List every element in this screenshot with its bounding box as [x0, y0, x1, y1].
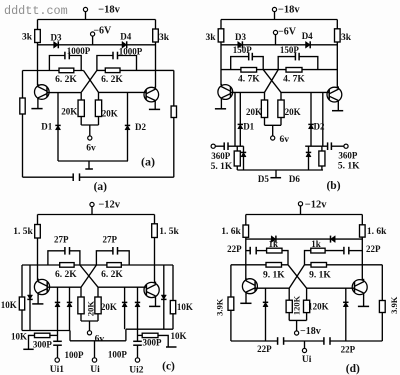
- svg-text:D6: D6: [289, 174, 300, 184]
- wire base left (c): [47, 286, 81, 288]
- wire feedback rail left (d): [231, 264, 288, 266]
- svg-text:−12v: −12v: [98, 199, 120, 210]
- wire Ui stub (d): [304, 341, 306, 348]
- resistor 4.7K right (b): [286, 68, 302, 73]
- resistor 3.9K left (d): [228, 297, 234, 310]
- capacitor 22P upper-right (d): [325, 247, 362, 255]
- wire right trunk upper (c): [154, 215, 156, 224]
- wire bottom rail left (a): [23, 176, 74, 178]
- terminal 6v (c): [87, 331, 91, 335]
- label 1.5k left (c): [13, 227, 33, 237]
- emitter Q2 (b): [332, 103, 343, 111]
- label Ui (c): [90, 365, 100, 375]
- resistor 10K horizontal left (c): [23, 333, 57, 349]
- wire bottom rail 2 (d): [284, 340, 324, 342]
- wire base right (d): [307, 287, 355, 289]
- wire collector rail (b): [221, 69, 337, 71]
- wire left trunk (b): [220, 42, 222, 85]
- transistor Q1 (b): [218, 84, 233, 100]
- svg-text:(d): (d): [346, 363, 360, 375]
- diode 4 middle (c): [135, 302, 140, 306]
- wire outer right (c): [172, 265, 174, 301]
- capacitor 150P left (b): [231, 53, 264, 70]
- label 360P right (b): [338, 151, 358, 161]
- wire outer right lower (c): [172, 314, 174, 329]
- label -18v (b): [278, 4, 300, 15]
- svg-text:100P: 100P: [65, 350, 85, 360]
- transistor Q2 (a): [144, 87, 159, 103]
- resistor 1.5k left (c): [35, 225, 41, 239]
- diode clamp left (c): [27, 295, 32, 299]
- svg-text:360P: 360P: [211, 151, 231, 161]
- label Ui (d): [302, 355, 312, 365]
- svg-text:D5: D5: [258, 174, 269, 184]
- wire collector left (a): [23, 70, 84, 72]
- wire bottom rail 3 (d): [330, 340, 382, 342]
- wire outer left (d): [230, 265, 232, 297]
- diode D2 (b): [308, 124, 313, 128]
- terminal -6V (a): [91, 32, 95, 45]
- wire base left (a): [47, 92, 81, 94]
- resistor 10K left (c): [19, 297, 24, 310]
- label 4.7K right (b): [283, 74, 305, 84]
- label -12v (c): [98, 199, 120, 210]
- capacitor 1000P right (a): [97, 52, 137, 71]
- label D3 (b): [235, 32, 246, 42]
- diode lower left (d): [263, 302, 268, 306]
- svg-text:6. 2K: 6. 2K: [55, 270, 77, 280]
- diode D4 (b): [306, 41, 311, 48]
- label 20K first (b): [246, 107, 262, 117]
- svg-text:27P: 27P: [54, 235, 69, 245]
- terminal Ui1 (c): [55, 358, 59, 362]
- svg-text:D3: D3: [235, 32, 246, 42]
- label 3k left (a): [22, 33, 33, 43]
- wire node left (b): [228, 145, 244, 147]
- wire outer right lower (a): [173, 118, 175, 178]
- label 100P right (c): [108, 349, 128, 359]
- capacitor 360P left (b): [215, 142, 228, 150]
- wire outer left lower (c): [21, 310, 23, 331]
- svg-text:3k: 3k: [205, 33, 216, 43]
- label 20K second (b): [285, 107, 301, 117]
- svg-text:10K: 10K: [177, 302, 193, 312]
- resistor 3k left (b): [218, 29, 224, 42]
- wire base right (a): [99, 91, 147, 93]
- wire 1k right drop (d): [305, 251, 311, 265]
- transistor Q1 (a): [35, 84, 50, 100]
- label 1.6k left (d): [221, 227, 241, 237]
- label 100P left (c): [65, 350, 85, 360]
- wire top rail (a): [38, 19, 156, 21]
- label 6.2K left (a): [55, 75, 77, 85]
- svg-text:D4: D4: [120, 31, 131, 41]
- svg-text:−6V: −6V: [278, 27, 297, 38]
- resistor 10K horizontal right (c): [138, 333, 177, 347]
- label (b) caption: [326, 180, 340, 192]
- wire diode rail (a): [38, 44, 156, 46]
- transistor Q1 (c): [34, 279, 49, 296]
- svg-text:Ui1: Ui1: [50, 365, 65, 375]
- wire 20K bracket (a): [81, 125, 98, 136]
- wire outer left lower (a): [22, 114, 24, 177]
- wire right trunk (c): [154, 238, 156, 284]
- svg-text:5. 1K: 5. 1K: [211, 162, 233, 172]
- label 150P left (b): [233, 45, 253, 55]
- label 5.1K right (b): [338, 162, 360, 172]
- watermark dddtt.com: [4, 4, 68, 18]
- wire base left (b): [231, 91, 265, 93]
- label -12v (d): [305, 200, 327, 211]
- svg-text:1k: 1k: [269, 239, 279, 249]
- diode D4 (a): [122, 41, 127, 48]
- svg-text:D1: D1: [41, 121, 52, 131]
- svg-text:3k: 3k: [159, 33, 170, 43]
- label 1.5k right (c): [159, 227, 179, 237]
- diode left steering (d): [271, 236, 276, 243]
- wire crossing diag1 (b): [263, 70, 281, 93]
- label 6v (a): [86, 144, 96, 154]
- wire diode branch 1 (c): [57, 287, 59, 330]
- wire clamp diode branch left (c): [29, 265, 31, 331]
- svg-text:120K: 120K: [291, 295, 301, 315]
- terminal 6v (a): [88, 136, 92, 140]
- wire outer right lower (d): [381, 313, 383, 342]
- label 5.1K left (b): [211, 162, 233, 172]
- emitter Q1 (c): [32, 295, 43, 304]
- wire bottom rail (b): [237, 169, 323, 171]
- svg-text:100P: 100P: [108, 349, 128, 359]
- resistor 3k right (a): [153, 29, 159, 42]
- wire bottom rail 1 (d): [231, 340, 278, 342]
- svg-text:5. 1K: 5. 1K: [338, 162, 360, 172]
- label 150P right (b): [280, 45, 300, 55]
- terminal Ui (c): [92, 358, 96, 362]
- svg-text:360P: 360P: [338, 151, 358, 161]
- wire right trunk upper (a): [155, 20, 157, 30]
- label 22P upper-left (d): [227, 244, 242, 254]
- wire outer left lower (d): [230, 310, 232, 341]
- wire outer right (d): [381, 265, 383, 301]
- svg-text:D4: D4: [302, 31, 313, 41]
- resistor 3k right (b): [335, 29, 341, 42]
- wire 1k left drop (d): [282, 251, 288, 265]
- svg-text:4. 7K: 4. 7K: [283, 74, 305, 84]
- wire diode branch left (d): [265, 288, 267, 341]
- svg-text:−6V: −6V: [93, 26, 112, 37]
- label 20K first (a): [61, 107, 77, 117]
- resistor 20K second (b): [278, 92, 284, 125]
- label 1000P left (a): [67, 46, 91, 56]
- resistor 120K left (d): [286, 288, 292, 320]
- wire bottom rail left (c): [22, 330, 70, 332]
- label 3.9K right rotated (d): [389, 296, 399, 314]
- diode clamp right (c): [161, 295, 166, 299]
- wire diode branch 4 (c): [137, 287, 139, 329]
- resistor 20K right (c): [95, 287, 101, 321]
- wire diode rail (d): [246, 238, 362, 240]
- svg-text:6. 2K: 6. 2K: [55, 75, 77, 85]
- svg-text:6v: 6v: [280, 135, 290, 145]
- label 6.2K left (c): [55, 270, 77, 280]
- wire top rail (d): [246, 214, 362, 216]
- wire D5-D6 stub (b): [270, 170, 281, 178]
- terminal -12v (d): [298, 202, 302, 215]
- resistor 20K first (b): [261, 92, 267, 125]
- wire crossing diag2 (b): [265, 70, 279, 93]
- svg-text:22P: 22P: [341, 345, 356, 355]
- wire right trunk upper (b): [336, 20, 338, 29]
- label -6V (b): [278, 27, 297, 38]
- wire left trunk upper (c): [37, 215, 39, 225]
- wire left trunk (c): [37, 238, 39, 280]
- diode D3 (a): [54, 41, 59, 48]
- svg-text:1k: 1k: [311, 239, 321, 249]
- label 120K rotated (d): [291, 295, 301, 315]
- label (a) caption: [94, 181, 108, 193]
- svg-text:300P: 300P: [143, 337, 163, 347]
- ground stub (a): [85, 161, 93, 169]
- resistor 120K right (d): [304, 288, 310, 320]
- label 20K right (c): [101, 302, 117, 312]
- wire outer left (c): [21, 265, 23, 297]
- wire diode branch right (d): [345, 288, 347, 341]
- wire diode branch 2 (c): [69, 287, 71, 330]
- label 6.2K right (c): [101, 270, 123, 280]
- transistor Q2 (d): [352, 279, 367, 296]
- svg-text:150P: 150P: [280, 45, 300, 55]
- emitter Q1 (a): [31, 100, 42, 109]
- diode 3 middle (c): [122, 302, 127, 306]
- wire diode rail (b): [221, 44, 337, 46]
- resistor 1k left (d): [267, 248, 282, 253]
- label D1 (b): [243, 122, 254, 132]
- label 1k left (d): [269, 239, 279, 249]
- svg-text:−18v: −18v: [300, 326, 321, 337]
- svg-text:22P: 22P: [227, 244, 242, 254]
- capacitor 27P right (c): [96, 247, 129, 265]
- resistor 6.2K left (c): [60, 263, 74, 268]
- svg-text:10K: 10K: [170, 331, 186, 341]
- capacitor 22P lower-left (d): [278, 337, 284, 345]
- wire right trunk upper (d): [361, 215, 363, 225]
- emitter Q2 (a): [149, 102, 160, 109]
- label 10K lower-left (c): [11, 331, 27, 341]
- wire base right (c): [98, 286, 146, 288]
- resistor 9.1K right (d): [311, 263, 327, 268]
- label 22P lower-left (d): [257, 344, 272, 354]
- wire inner left branch (b): [234, 92, 236, 146]
- resistor outer right (a): [171, 106, 176, 118]
- wire crossing diag1 (c): [80, 265, 98, 287]
- wire crossing diag1 (a): [84, 71, 99, 93]
- wire right trunk (a): [155, 42, 157, 87]
- svg-text:4. 7K: 4. 7K: [238, 74, 260, 84]
- capacitor 22P lower-right (d): [324, 337, 330, 345]
- svg-text:−18v: −18v: [98, 4, 120, 15]
- wire base right (b): [281, 91, 329, 93]
- resistor outer left (a): [20, 98, 25, 114]
- wire crossing diag2 (a): [81, 70, 97, 92]
- label -18v (d): [300, 326, 321, 337]
- wire 20K bracket (b): [265, 125, 282, 136]
- wire outer left (a): [22, 71, 24, 99]
- svg-text:3.9K: 3.9K: [389, 296, 399, 314]
- svg-text:(a): (a): [94, 181, 108, 193]
- wire right trunk (d): [361, 237, 363, 280]
- label 120K right (d): [308, 301, 329, 311]
- svg-text:1000P: 1000P: [119, 46, 143, 56]
- diode D1 (b): [238, 124, 243, 128]
- transistor Q2 (c): [144, 282, 159, 299]
- resistor 6.2K right (a): [105, 68, 120, 73]
- wire ground bus (c): [70, 340, 126, 342]
- terminal -18v (d): [295, 331, 299, 335]
- svg-text:20K: 20K: [101, 302, 117, 312]
- label D4 (a): [120, 31, 131, 41]
- svg-text:6. 2K: 6. 2K: [101, 75, 123, 85]
- svg-text:D2: D2: [314, 122, 325, 132]
- wire crossing diag2 (d): [289, 265, 304, 288]
- wire D1 branch (b): [239, 92, 241, 146]
- terminal Ui (d): [302, 348, 306, 352]
- label 300P right (c): [143, 337, 163, 347]
- diode D2 (a): [125, 125, 130, 129]
- label 27P left (c): [54, 235, 69, 245]
- wire crossing diag2 (c): [81, 265, 96, 287]
- svg-text:20K: 20K: [102, 109, 118, 119]
- label D5 (b): [258, 174, 269, 184]
- label 27P right (c): [103, 235, 118, 245]
- wire outer right upper (a): [173, 70, 175, 106]
- terminal input left (b): [211, 144, 215, 148]
- resistor 10K right (c): [170, 301, 175, 314]
- svg-text:120K: 120K: [308, 301, 329, 311]
- transistor Q2 (b): [327, 86, 342, 102]
- terminal -18v (b): [272, 7, 276, 19]
- svg-text:20K: 20K: [246, 107, 262, 117]
- resistor 3k left (a): [35, 30, 41, 43]
- label 3k left (b): [205, 33, 216, 43]
- label 9.1K right (d): [309, 271, 331, 281]
- wire D2 branch (a): [127, 92, 129, 161]
- emitter Q2 (d): [358, 295, 369, 306]
- label 1000P right (a): [119, 46, 143, 56]
- label 10K lower-right (c): [170, 331, 186, 341]
- label 20K left rotated (c): [86, 301, 96, 317]
- label 6v (c): [95, 335, 105, 345]
- capacitor output left (c): [53, 331, 62, 358]
- wire node right (b): [305, 145, 327, 147]
- resistor 3.9K right (d): [379, 301, 385, 313]
- svg-text:6. 2K: 6. 2K: [101, 270, 123, 280]
- diode lower right (d): [343, 302, 348, 306]
- svg-text:Ui: Ui: [302, 355, 312, 365]
- svg-text:(b): (b): [326, 180, 340, 192]
- svg-text:−12v: −12v: [305, 200, 327, 211]
- svg-text:6v: 6v: [86, 144, 96, 154]
- label 6.2K right (a): [101, 75, 123, 85]
- wire clamp diode branch right (c): [163, 265, 165, 329]
- svg-text:300P: 300P: [33, 339, 53, 349]
- wire left trunk upper (a): [37, 20, 39, 30]
- label 1k right (d): [311, 239, 321, 249]
- capacitor 22P upper-left (d): [246, 247, 267, 255]
- label 9.1K left (d): [263, 270, 285, 280]
- label 3.9K left rotated (d): [214, 298, 224, 316]
- label -18v (a): [98, 4, 120, 15]
- label Ui1 (c): [50, 365, 65, 375]
- svg-text:−18v: −18v: [278, 4, 300, 15]
- diode 1 middle (c): [55, 302, 60, 306]
- diode right lower (b): [306, 146, 311, 170]
- resistor 6.2K right (c): [107, 263, 121, 268]
- battery (a): [73, 173, 79, 181]
- svg-text:20K: 20K: [285, 107, 301, 117]
- svg-text:3k: 3k: [341, 33, 352, 43]
- wire left trunk (d): [245, 237, 247, 279]
- svg-text:9. 1K: 9. 1K: [263, 270, 285, 280]
- resistor 1k right (d): [311, 248, 325, 253]
- svg-text:1. 5k: 1. 5k: [159, 227, 179, 237]
- svg-text:1. 5k: 1. 5k: [13, 227, 33, 237]
- label Ui2 (c): [129, 365, 144, 375]
- svg-text:27P: 27P: [103, 235, 118, 245]
- label D2 (b): [314, 122, 325, 132]
- terminal -6V (b): [273, 30, 277, 44]
- resistor 1.6k left (d): [243, 225, 249, 237]
- resistor 6.2K left (a): [59, 68, 74, 73]
- svg-text:D1: D1: [243, 122, 254, 132]
- capacitor 27P left (c): [48, 247, 80, 265]
- capacitor output right (c): [133, 329, 142, 358]
- label D1 (a): [41, 121, 52, 131]
- svg-text:10K: 10K: [11, 331, 27, 341]
- label 300P left (c): [33, 339, 53, 349]
- wire inner bottom rail (a): [58, 160, 128, 162]
- emitter Q1 (d): [240, 294, 251, 303]
- terminal input right (b): [344, 144, 348, 148]
- wire Ui drop (c): [94, 341, 96, 358]
- wire collector rail (c): [22, 264, 173, 266]
- wire top rail (c): [38, 214, 155, 216]
- wire collector right (a): [97, 69, 174, 71]
- svg-text:D3: D3: [51, 32, 62, 42]
- svg-text:3k: 3k: [22, 33, 33, 43]
- label D4 (b): [302, 31, 313, 41]
- terminal 6v (b): [271, 136, 275, 140]
- wire diode branch 3 (c): [124, 287, 126, 329]
- terminal Ui2 (c): [135, 358, 139, 362]
- svg-text:6v: 6v: [95, 335, 105, 345]
- emitter Q1 (b): [215, 100, 226, 109]
- capacitor 360P right (b): [328, 142, 344, 150]
- label 6v (b): [280, 135, 290, 145]
- diode D1 (a): [55, 125, 60, 129]
- label D2 (a): [135, 122, 146, 132]
- label -6V (a): [93, 26, 112, 37]
- resistor 20K second (a): [95, 92, 101, 125]
- wire bottom rail right (c): [126, 328, 173, 330]
- diode right steering (d): [331, 236, 336, 243]
- wire bottom rail right (a): [80, 176, 174, 178]
- resistor 4.7K left (b): [241, 68, 257, 73]
- label 4.7K left (b): [238, 74, 260, 84]
- resistor 1.5k right (c): [152, 224, 158, 238]
- wire right trunk (b): [336, 42, 338, 88]
- svg-text:Ui2: Ui2: [129, 365, 144, 375]
- label D3 (a): [51, 32, 62, 42]
